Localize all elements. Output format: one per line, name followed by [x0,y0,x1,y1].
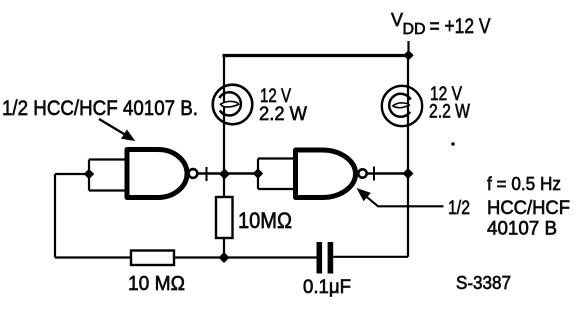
wire U2 input tie stub [257,159,259,190]
wire right vertical node C to bottom [407,174,409,257]
wire node A horizontal [55,173,89,175]
wire node B to U2 inputs [224,172,259,174]
svg-text:40107 B: 40107 B [487,219,557,240]
svg-text:= +12 V: = +12 V [430,14,492,38]
wire U1 upper input [89,158,127,160]
svg-text:S-3387: S-3387 [456,273,511,293]
wire lamp LP2 branch (VDD node down to node C) [407,56,409,174]
svg-text:DD: DD [403,21,426,38]
U2 output bubble [358,169,366,177]
svg-text:HCC/HCF: HCC/HCF [487,198,570,219]
svg-text:V: V [391,10,403,30]
U1 output bubble [189,169,198,178]
svg-text:2.2 W: 2.2 W [259,103,308,125]
stray mark dot [451,142,455,146]
wire U1 lower input [89,189,127,191]
wire left feedback vertical [54,174,56,258]
svg-text:1/2 HCC/HCF 40107 B.: 1/2 HCC/HCF 40107 B. [2,97,198,120]
svg-text:10 MΩ: 10 MΩ [128,273,185,295]
leader arrow to U2 [357,188,444,206]
junction node A [84,169,94,179]
NAND gate U1 [127,150,187,198]
svg-text:1/2: 1/2 [448,198,470,219]
resistor R2 10 MOhm (vertical) [216,197,233,238]
wire U2 upper input [258,157,296,159]
wire bottom rail right (cap to right vertical) [333,256,408,258]
leader arrow to U1 [99,119,135,141]
wire U1 input tie stub [88,160,90,191]
NAND gate U2 [296,150,356,198]
capacitor C1 0.1 uF [317,242,334,274]
svg-text:10MΩ: 10MΩ [238,208,292,233]
wire bottom rail left [55,256,317,258]
junction node D [219,252,230,263]
wire U1 output to node B [198,172,225,174]
wire lamp LP1 branch (top bus down to node B) [223,56,225,174]
junction node B [219,169,230,180]
wire top supply bus [223,54,409,57]
svg-text:f = 0.5 Hz: f = 0.5 Hz [487,174,561,194]
junction VDD node [403,50,413,60]
tick on U1 output wire [206,167,208,181]
junction node C [403,168,414,179]
wire U2 lower input [258,188,296,190]
lamp LP1 [213,85,253,125]
tick on U2 output wire [373,167,375,181]
svg-text:0.1μF: 0.1μF [303,277,351,298]
resistor R1 10 MOhm (horizontal) [131,251,174,266]
svg-text:2.2 W: 2.2 W [429,101,470,123]
lamp LP2 [382,86,422,126]
wire U2 output to node C [367,172,408,174]
wire VDD stub [407,41,409,56]
junction U2 input node [253,168,263,178]
wire node B down through R2 to node D [223,174,225,258]
